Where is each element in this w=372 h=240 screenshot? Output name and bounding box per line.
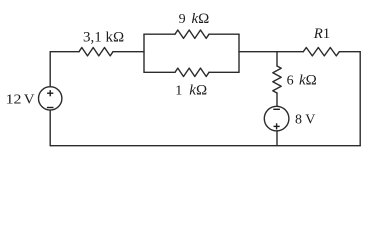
svg-text:6: 6 xyxy=(287,74,294,89)
svg-text:kΩ: kΩ xyxy=(192,11,210,27)
svg-text:1: 1 xyxy=(175,83,182,98)
svg-text:8 V: 8 V xyxy=(295,112,315,127)
svg-text:3,1 kΩ: 3,1 kΩ xyxy=(83,30,124,46)
svg-text:kΩ: kΩ xyxy=(189,82,207,98)
svg-text:V: V xyxy=(24,92,35,107)
svg-text:kΩ: kΩ xyxy=(299,73,317,89)
svg-text:R1: R1 xyxy=(313,26,330,42)
svg-text:12: 12 xyxy=(6,92,22,107)
svg-text:9: 9 xyxy=(179,12,186,27)
